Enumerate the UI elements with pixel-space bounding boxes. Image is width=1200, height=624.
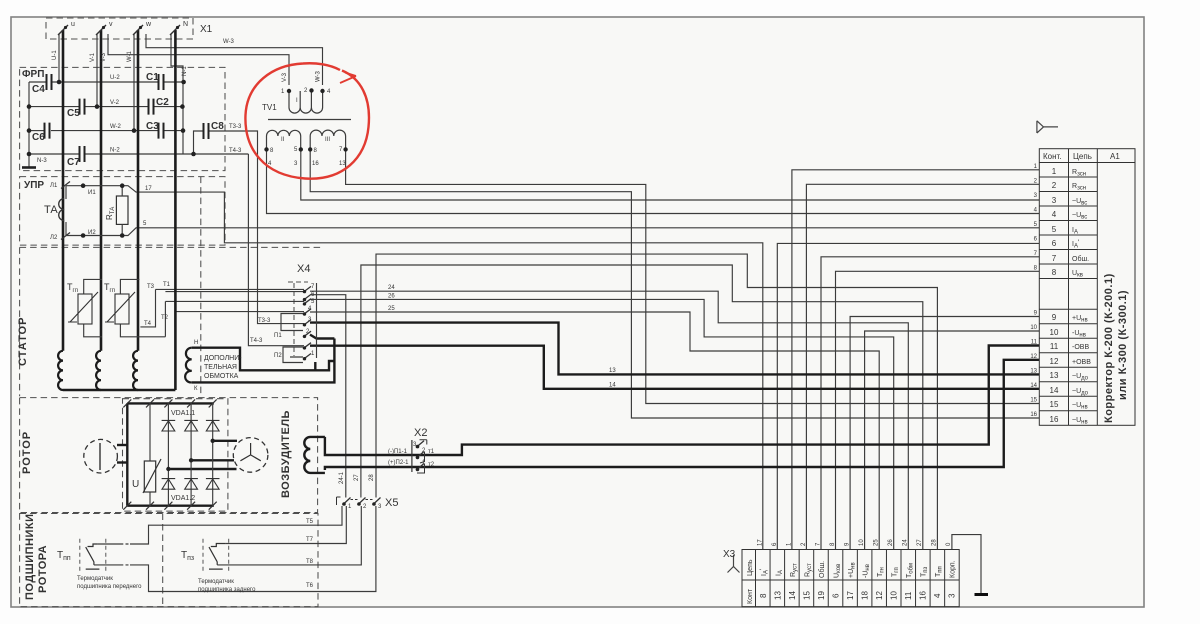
TV1 secondary II-5 wire to A1 pin3	[301, 149, 1040, 200]
wire 10 A1 pin10 to X3 col8	[865, 331, 1040, 550]
capacitor C1	[159, 74, 164, 90]
wire 1 A1 pin1 to X3 col3	[792, 170, 1039, 550]
svg-text:VDA1.2: VDA1.2	[171, 495, 195, 502]
rotor brush bar	[99, 443, 101, 470]
exciter field winding	[304, 437, 325, 473]
svg-text:Термодатчик: Термодатчик	[198, 579, 234, 585]
svg-text:13: 13	[1050, 371, 1059, 380]
svg-text:T2: T2	[161, 315, 169, 321]
TA terminal labels	[50, 183, 152, 241]
TV1 winding numerals	[281, 98, 330, 143]
svg-text:T6: T6	[306, 583, 314, 589]
junction dot I2	[81, 233, 86, 238]
rectifier phase lead a to exciter armature	[213, 440, 237, 442]
shield symbol near A1	[1037, 121, 1058, 133]
svg-text:C7: C7	[67, 157, 80, 168]
X3 wire numbers above rotated	[758, 539, 953, 546]
svg-text:(-)П1-1: (-)П1-1	[388, 449, 408, 455]
svg-text:13: 13	[1030, 369, 1037, 375]
wire 14 X4 to A1 pin14	[310, 346, 1039, 389]
junction dot U2/U1	[57, 80, 62, 85]
svg-text:11: 11	[1050, 342, 1059, 351]
svg-text:T7: T7	[306, 537, 314, 543]
svg-text:2: 2	[1052, 181, 1057, 190]
TA I1 wire 17 to X3 col1	[122, 186, 763, 550]
svg-text:УПР: УПР	[24, 180, 44, 191]
terminal X1-v	[96, 25, 106, 35]
svg-text:17: 17	[145, 186, 152, 192]
svg-text:14: 14	[609, 383, 616, 389]
svg-text:4: 4	[1052, 210, 1057, 219]
svg-text:12: 12	[1050, 357, 1059, 366]
svg-text:11: 11	[1031, 340, 1038, 346]
capacitor C4	[47, 74, 52, 90]
wire V-1 from X1-v to bus V-2	[96, 34, 98, 107]
capacitor C7	[80, 146, 85, 162]
svg-text:C8: C8	[211, 121, 224, 132]
svg-text:+ОВВ: +ОВВ	[1072, 359, 1091, 366]
svg-text:III: III	[325, 137, 330, 143]
svg-text:T4-3: T4-3	[250, 338, 263, 344]
wire 28 X5 pin3 to X3 col13	[376, 254, 937, 549]
svg-text:N-2: N-2	[110, 148, 120, 154]
rectifier junction slashes bottom	[123, 502, 216, 510]
svg-text:РОТОР: РОТОР	[21, 431, 33, 474]
X4 pin dots	[303, 290, 306, 293]
rotor rectifier top bus	[127, 402, 214, 404]
TA secondary wires I1 I2	[66, 186, 122, 236]
sensor wire T7 to X5 pin1	[225, 506, 346, 544]
X4 right vertical	[316, 283, 318, 358]
svg-text:Обш.: Обш.	[1072, 255, 1089, 263]
svg-text:СТАТОР: СТАТОР	[17, 317, 29, 366]
svg-text:ТА: ТА	[44, 204, 58, 216]
junction dot N2 C8	[191, 152, 196, 157]
svg-text:15: 15	[803, 591, 812, 600]
red marker flourish	[340, 73, 356, 84]
wire 9 A1 pin9 to X3 col7	[850, 317, 1039, 550]
svg-text:T5: T5	[306, 519, 314, 525]
aux winding bottom wire	[192, 339, 335, 383]
labels T3-3 T4-3 top	[229, 124, 271, 344]
svg-text:т1: т1	[428, 449, 435, 455]
svg-text:24-1: 24-1	[339, 471, 345, 484]
rectifier left vertical	[126, 403, 128, 505]
svg-text:V-1: V-1	[90, 52, 96, 62]
svg-text:T3-3: T3-3	[258, 318, 271, 324]
wire 8 A1 pin8 to X3 col6	[836, 271, 1040, 549]
aux winding top wire	[192, 348, 335, 371]
sensor wire T6 to X5 pin3	[94, 506, 376, 592]
X2 pin dots	[416, 445, 420, 449]
junction dot N2 left	[27, 152, 32, 157]
TV1 primary coil I	[289, 91, 323, 113]
phase bus w	[137, 30, 140, 351]
svg-text:-ОВВ: -ОВВ	[1072, 344, 1089, 351]
svg-text:10: 10	[1030, 325, 1037, 331]
section box ROTOR	[20, 398, 318, 513]
svg-text:10: 10	[859, 539, 865, 546]
svg-text:ФРП: ФРП	[22, 69, 44, 80]
exciter bottom wire to +OVV A1 pin12	[325, 360, 1039, 470]
svg-text:13: 13	[339, 161, 346, 167]
transformer TV1	[267, 91, 352, 149]
svg-text:W-1: W-1	[127, 50, 133, 62]
phase bus u	[62, 30, 65, 351]
svg-text:28: 28	[369, 474, 375, 481]
TV1 II dot 8	[264, 147, 268, 151]
svg-text:5: 5	[1052, 225, 1057, 234]
svg-text:или К-300 (К-300.1): или К-300 (К-300.1)	[1117, 290, 1129, 400]
terminal X1-N	[170, 25, 180, 35]
stator winding coil u	[58, 351, 63, 390]
wire T4-3 from N-2 down to X4 pin	[248, 154, 304, 346]
svg-text:25: 25	[388, 306, 395, 312]
junction dot V2 right	[180, 104, 185, 109]
rotor brush stub bottom	[117, 461, 127, 463]
svg-text:11: 11	[904, 591, 913, 600]
bus N-2	[29, 153, 79, 155]
svg-text:РОТОРА: РОТОРА	[37, 545, 49, 593]
wire N-1 from X1-N down to FRP right vertical	[171, 34, 183, 154]
svg-text:15: 15	[1050, 400, 1059, 409]
rectifier output dot c	[166, 467, 170, 471]
junction dot RTA bottom	[120, 233, 125, 238]
diode column wires	[150, 403, 213, 505]
svg-text:Конт: Конт	[747, 588, 754, 604]
resistor R_TA	[116, 196, 128, 224]
svg-text:15: 15	[1030, 398, 1037, 404]
terminal dot N	[176, 26, 179, 29]
capacitor C2	[149, 99, 154, 115]
terminal dot v	[102, 26, 105, 29]
bearing sensor Tpz dashed sides	[203, 539, 229, 571]
X2 wire labels	[388, 442, 435, 468]
rotor machine circle	[84, 439, 118, 473]
bearing sensor Tpp dashed sides	[80, 539, 106, 571]
svg-text:8: 8	[1052, 268, 1057, 277]
svg-text:13: 13	[774, 591, 783, 600]
svg-text:26: 26	[388, 294, 395, 300]
svg-text:подшипника переднего: подшипника переднего	[77, 584, 142, 590]
svg-text:17: 17	[846, 591, 855, 600]
capacitor labels	[32, 72, 224, 168]
svg-text:т2: т2	[428, 462, 435, 468]
bearings divider dashed	[162, 514, 164, 607]
section box FRP (filter)	[20, 67, 225, 170]
svg-text:16: 16	[1030, 412, 1037, 418]
TV1 primary dot 4	[320, 89, 324, 93]
X5 bracket	[337, 497, 341, 505]
C8 left lead down to N-2	[194, 131, 204, 154]
svg-text:9: 9	[1052, 313, 1057, 322]
svg-text:Термодатчик: Термодатчик	[77, 576, 113, 582]
aux winding caption	[204, 355, 242, 380]
svg-text:V-3: V-3	[101, 52, 107, 62]
bus W-2	[29, 130, 44, 132]
svg-text:N-3: N-3	[37, 158, 47, 164]
terminal dot w	[139, 26, 142, 29]
X4 jumper P1	[281, 314, 303, 331]
svg-text:24: 24	[388, 285, 395, 291]
svg-text:14: 14	[1050, 386, 1059, 395]
svg-text:10: 10	[1050, 328, 1059, 337]
table X3	[742, 550, 959, 607]
thermistor wire T3 vertical and stub	[140, 289, 155, 327]
terminal X1-u	[58, 25, 68, 35]
svg-text:А1: А1	[1110, 152, 1120, 161]
svg-text:ТЕЛЬНАЯ: ТЕЛЬНАЯ	[204, 364, 237, 371]
wire 25 X4 to X3 col9	[310, 312, 879, 550]
svg-text:26: 26	[888, 539, 894, 546]
capacitor C8	[204, 123, 209, 139]
svg-text:И2: И2	[88, 230, 96, 236]
wire W-1 from X1-w to bus W-2	[133, 34, 135, 131]
thermistor Tgp1 body	[68, 292, 98, 324]
X2 bracket bottom	[417, 464, 425, 473]
TV1 secondary II coil	[267, 130, 301, 149]
X4 dashed top	[288, 281, 308, 283]
FRP left vertical to ground	[28, 82, 30, 167]
svg-text:1: 1	[1052, 167, 1057, 176]
svg-text:X3: X3	[723, 549, 736, 560]
svg-text:28: 28	[932, 539, 938, 546]
junction dot RTA top	[120, 183, 125, 188]
svg-text:u: u	[71, 21, 75, 28]
svg-text:ПОДШИПНИКИ: ПОДШИПНИКИ	[24, 514, 36, 601]
A1 pin numbers column	[1050, 167, 1059, 424]
svg-text:П1: П1	[274, 333, 282, 339]
thermistor wire labels	[144, 282, 171, 327]
stator winding coil v	[96, 351, 101, 390]
TV1 pin numbers	[268, 88, 346, 167]
junction dot W2/W1	[132, 128, 137, 133]
bearing sensor Tpp contact	[86, 544, 100, 569]
svg-text:Корп.: Корп.	[950, 560, 957, 578]
svg-text:T3-3: T3-3	[229, 124, 242, 130]
svg-text:w: w	[145, 21, 152, 28]
svg-text:TV1: TV1	[262, 103, 277, 112]
A1 stub pin labels	[1030, 164, 1037, 418]
X5 wire labels rotated	[339, 471, 375, 484]
X4 pin3 stub to aux winding	[310, 335, 334, 339]
table A1 corrector	[1039, 149, 1135, 426]
wire number labels 24 26 25	[388, 285, 395, 312]
section box BEARINGS	[20, 514, 318, 607]
svg-text:X4: X4	[297, 263, 310, 275]
svg-text:N-1: N-1	[182, 66, 188, 76]
connector X4 pins	[303, 286, 311, 359]
svg-text:T1: T1	[163, 282, 171, 288]
connector X1 dashed box	[46, 18, 193, 39]
svg-text:U: U	[132, 479, 139, 490]
shield symbol near X3	[728, 555, 740, 573]
TA terminal slash L2	[61, 233, 70, 240]
X4 pin1 drop to aux loop	[314, 362, 316, 370]
svg-text:W-2: W-2	[110, 124, 122, 130]
exciter armature circle	[233, 438, 268, 473]
svg-text:Цепь: Цепь	[1073, 152, 1092, 161]
wire 24-1 branch to X5 pin1	[311, 295, 346, 498]
rectifier phase lead c to exciter armature	[168, 468, 236, 470]
svg-text:X1: X1	[200, 24, 213, 35]
wire 27 X5 pin2 to X3 col12	[361, 265, 923, 550]
wire 6 A1 pin6 to X3 col2	[777, 243, 1039, 549]
TV1 secondary III-8 wire 16 to A1 pin16	[310, 149, 1039, 418]
wire T3-3 from C8 right plate down to X4 pin	[209, 131, 305, 324]
terminal dot u	[64, 26, 67, 29]
wire V-3 from X1-v area to TV1 primary pin1	[108, 34, 289, 85]
svg-text:X5: X5	[385, 497, 398, 509]
exciter top wire to -OVV A1 pin11	[325, 346, 1039, 456]
svg-text:C4: C4	[32, 84, 45, 95]
TV1 secondary III coil	[310, 130, 345, 149]
svg-text:14: 14	[788, 591, 797, 600]
X5 dashed link	[351, 499, 374, 501]
svg-text:C2: C2	[156, 97, 169, 108]
rectifier output dot a	[211, 439, 215, 443]
thermistor wire T4 to X4	[175, 312, 304, 327]
thermistor wire T1 to X4	[156, 288, 305, 290]
capacitor C3	[159, 123, 164, 139]
TV1 III dot 8	[308, 147, 312, 151]
svg-text:13: 13	[609, 368, 616, 374]
svg-text:Корректор К-200 (К-200.1): Корректор К-200 (К-200.1)	[1103, 273, 1115, 423]
TV1 core line	[268, 119, 351, 121]
svg-text:T4-3: T4-3	[229, 148, 242, 154]
exciter armature Y symbol	[240, 443, 260, 461]
wire 7 A1 pin7 to X3 col5	[821, 257, 1039, 550]
svg-text:17: 17	[758, 539, 764, 546]
stator winding bottom link	[63, 389, 175, 392]
rectifier phase lead b to exciter armature	[191, 459, 234, 461]
svg-text:U-2: U-2	[110, 75, 120, 81]
connector X2 bar	[411, 440, 413, 472]
svg-text:25: 25	[874, 539, 880, 546]
TV1 III dot 7	[343, 147, 347, 151]
wire U-1 from X1-u to FRP bus U-2	[58, 34, 60, 82]
ground bar FRP	[22, 166, 36, 169]
X2 pin slashes	[416, 441, 424, 471]
svg-text:Н: Н	[194, 340, 198, 346]
svg-text:16: 16	[1050, 415, 1059, 424]
rotor rectifier bottom bus	[127, 505, 214, 507]
svg-text:12: 12	[1030, 354, 1037, 360]
svg-text:3: 3	[1052, 196, 1057, 205]
rotor brush stub top	[117, 444, 127, 446]
capacitor C6	[45, 123, 50, 139]
svg-text:W-3: W-3	[223, 39, 235, 45]
section box UPR	[20, 177, 225, 246]
thermistor Tgp2 body	[105, 292, 135, 324]
TV1 secondary II-8 wire to A1 pin4	[267, 149, 1040, 213]
junction dot V2/V1	[95, 104, 100, 109]
bearing sensor Tpz contact	[209, 544, 225, 570]
wire W-3 from X1-w area to TV1 primary pin4	[146, 34, 323, 85]
svg-text:Цепь: Цепь	[747, 559, 754, 576]
capacitor C5	[80, 99, 85, 115]
thermistor loop 1	[84, 279, 102, 336]
svg-text:27: 27	[354, 474, 360, 481]
svg-text:V-2: V-2	[110, 100, 120, 106]
svg-text:C6: C6	[32, 132, 45, 143]
varistor slash	[143, 459, 161, 493]
svg-text:27: 27	[917, 539, 923, 546]
junction dot I1	[81, 183, 86, 188]
junction dot U2 right	[181, 80, 186, 85]
svg-text:подшипника заднего: подшипника заднего	[198, 587, 256, 593]
svg-text:VDA1.1: VDA1.1	[171, 410, 195, 417]
X4 pin numbers	[306, 284, 315, 357]
svg-text:ДОПОЛНИ-: ДОПОЛНИ-	[204, 355, 242, 362]
svg-text:12: 12	[875, 591, 884, 600]
svg-text:Обш.: Обш.	[818, 561, 826, 578]
svg-text:T8: T8	[306, 559, 314, 565]
junction dot W2 left	[27, 128, 32, 133]
X3 circuit labels rotated	[760, 560, 957, 578]
TV1 secondary III-7 wire 13 to A1 pin15	[346, 149, 1040, 403]
wire 24 X4 to X3 col11	[310, 291, 908, 549]
X3 contact numbers rotated	[759, 591, 957, 600]
TV1 primary dot 1	[287, 89, 291, 93]
A1 circuit names column	[1072, 169, 1091, 426]
svg-text:T3: T3	[147, 284, 155, 290]
sensor wire T8 to X5 pin2	[217, 506, 361, 565]
red marker ellipse around TV1	[245, 63, 369, 178]
phase bus v	[100, 30, 103, 351]
wire 26 X4 to X3 col10	[310, 299, 894, 549]
junction dot V2 left	[27, 104, 32, 109]
X4 jumper P2	[283, 347, 303, 363]
TV1 primary dot 2	[309, 88, 313, 92]
svg-text:Л2: Л2	[50, 235, 58, 241]
svg-text:W-3: W-3	[316, 70, 322, 82]
svg-text:V-3: V-3	[282, 72, 288, 82]
stator winding coil w	[133, 351, 138, 390]
svg-text:N: N	[183, 21, 188, 28]
svg-text:8: 8	[759, 593, 768, 598]
diodes VDA1.1	[162, 420, 220, 431]
svg-text:II: II	[281, 137, 285, 143]
svg-text:C3: C3	[146, 121, 159, 132]
svg-text:П2: П2	[274, 353, 282, 359]
svg-text:ВОЗБУДИТЕЛЬ: ВОЗБУДИТЕЛЬ	[280, 410, 292, 498]
thermistor loop 2	[120, 279, 139, 336]
svg-text:U-1: U-1	[52, 50, 58, 60]
current transformer TA coil	[59, 199, 65, 221]
TA terminal slash L1	[61, 182, 70, 189]
X2 bracket mid	[420, 452, 425, 463]
svg-text:(+)П2-1: (+)П2-1	[388, 460, 409, 466]
svg-text:К: К	[194, 386, 198, 392]
rotor rectifier dashed box	[123, 399, 228, 511]
svg-text:18: 18	[861, 591, 870, 600]
thermistor wire T3 to X4	[165, 291, 304, 293]
svg-text:6: 6	[832, 593, 841, 598]
thermistor wire T2 to X4	[140, 301, 305, 336]
svg-text:3: 3	[948, 593, 957, 598]
junction dot W2 right	[181, 128, 186, 133]
TV1 II dot 5	[299, 147, 303, 151]
diodes VDA1.2	[162, 479, 220, 490]
svg-text:ОБМОТКА: ОБМОТКА	[204, 373, 239, 380]
svg-text:C1: C1	[146, 72, 159, 83]
connector X5 pin slashes	[343, 498, 381, 506]
svg-text:24: 24	[903, 539, 909, 546]
wire labels U-1 V-1 V-3 W-1 W-3 vertical	[52, 50, 322, 82]
neutral bus N	[174, 30, 177, 390]
svg-text:4: 4	[933, 593, 942, 598]
